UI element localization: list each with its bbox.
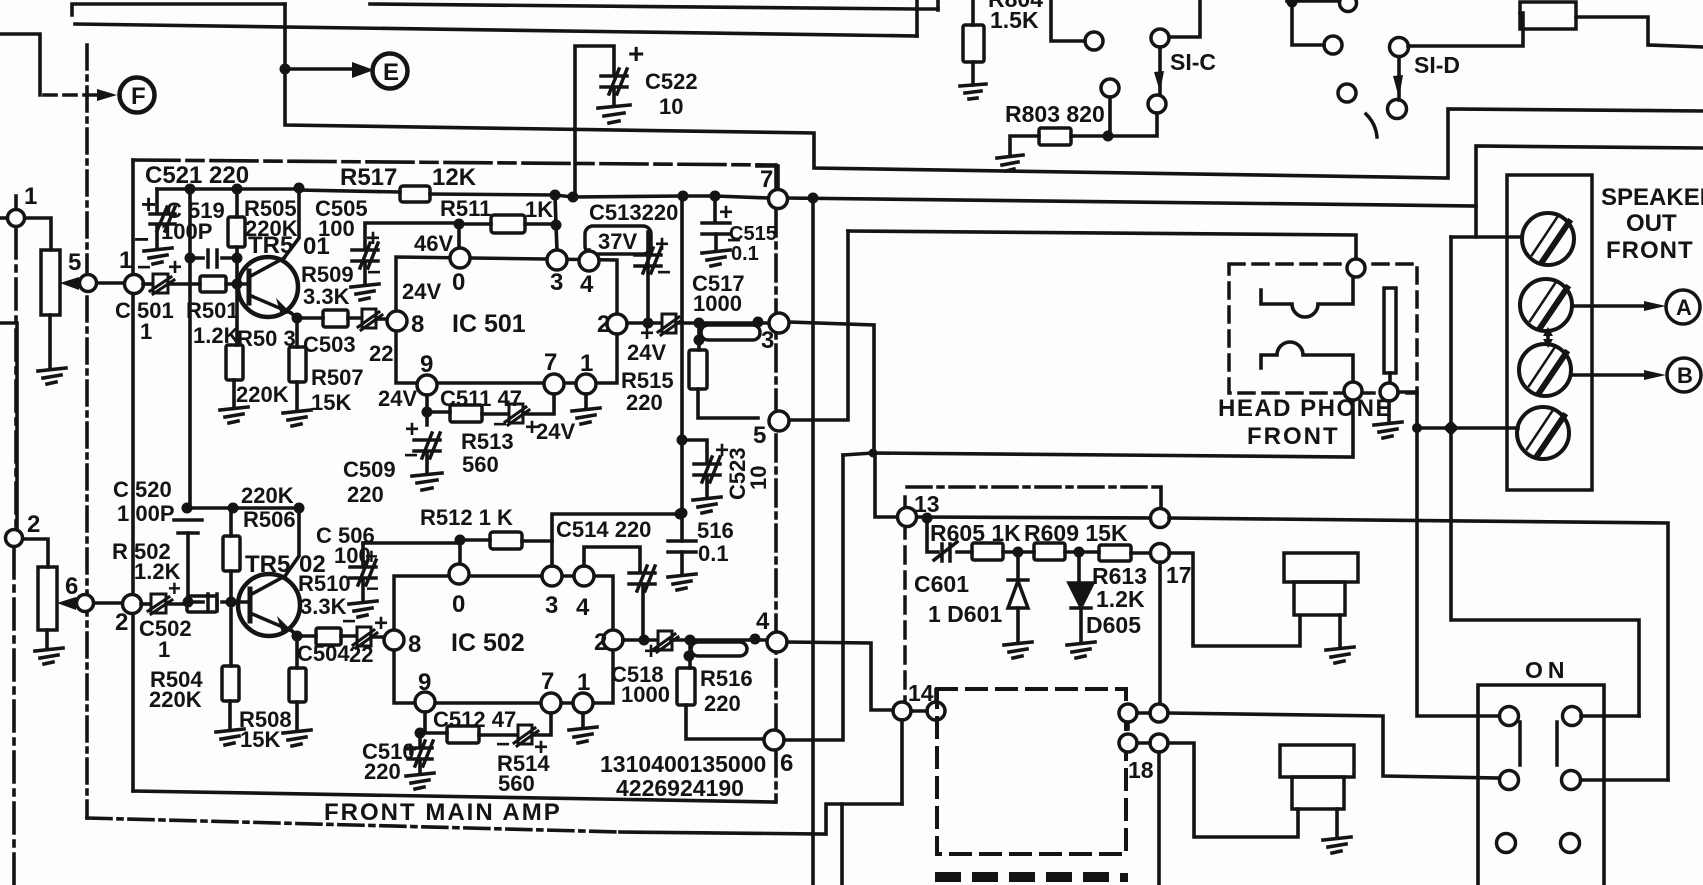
wire R507 ground [295, 382, 299, 410]
outer dash-dot bottom border [87, 818, 620, 832]
ground R803 [997, 155, 1023, 171]
diode D605 lead [1077, 552, 1081, 583]
svg-text:−: − [657, 259, 671, 286]
resistor R509 [323, 310, 348, 327]
heavy dashed boundary bottom [935, 872, 961, 882]
svg-text:1 00P: 1 00P [117, 501, 175, 526]
wire node7 bus to right edge [786, 198, 1476, 206]
plug P1 body [1284, 553, 1358, 582]
resistor R605 [972, 543, 1003, 560]
pin 7 IC502 [541, 693, 561, 713]
wire top border segment with tick [72, 4, 285, 15]
transistor TR502 [238, 574, 300, 636]
capacitor coupling ch1 [208, 250, 217, 267]
wire C505 ground [363, 263, 367, 284]
ground C515 [702, 250, 730, 266]
node B [1667, 358, 1701, 392]
wire node14 riser [900, 720, 904, 804]
ground C516 [668, 574, 696, 590]
junction dot R505 [232, 253, 243, 264]
node 18 right upper [1150, 704, 1168, 722]
wire SI-C feed left [1051, 0, 1085, 41]
switch SI-D contact c [1338, 84, 1356, 102]
wire D601 to ground [1016, 608, 1020, 642]
junction dot 682/440 [677, 435, 688, 446]
junction dots rail [550, 190, 561, 201]
wire C504 to pin8 [371, 635, 385, 639]
wire node6 to board pin2 [94, 601, 122, 605]
svg-text:−: − [137, 254, 151, 281]
wire node3 drop [790, 322, 874, 452]
wire 18 upper to ON lower-left [1168, 713, 1500, 778]
wire input1 feed [0, 216, 7, 220]
wire C509 ground [425, 453, 429, 473]
capacitor C505 electrolytic [352, 243, 378, 268]
wire C501 to R501 [168, 282, 200, 286]
pin 1 IC502 [573, 693, 593, 713]
svg-text:560: 560 [498, 771, 535, 796]
svg-text:C504: C504 [297, 641, 350, 666]
wire R504 ground [228, 701, 232, 729]
svg-text:C521 220: C521 220 [145, 162, 249, 189]
wire R505 leads [235, 189, 239, 285]
capacitor C601 [934, 542, 957, 561]
pin 8 IC501 [387, 311, 407, 331]
junction sleeve [869, 449, 878, 458]
wire C508 down to output [641, 586, 645, 640]
svg-text:IC 501: IC 501 [452, 310, 526, 338]
svg-text:B: B [1677, 363, 1693, 388]
svg-text:R804: R804 [988, 0, 1043, 12]
svg-text:1: 1 [24, 183, 37, 210]
svg-text:+: + [628, 38, 644, 69]
svg-text:18: 18 [1128, 757, 1154, 783]
resistor R804 lead [971, 0, 975, 25]
svg-text:22: 22 [369, 341, 393, 366]
svg-text:220: 220 [364, 759, 401, 784]
svg-text:1.2K: 1.2K [1096, 586, 1145, 612]
ON contact lower right [1562, 771, 1581, 790]
pin 3 IC502 [542, 566, 562, 586]
svg-text:HEAD PHONE: HEAD PHONE [1218, 395, 1393, 422]
terminal 3 [1519, 344, 1571, 396]
capacitor C519 [150, 207, 175, 231]
resistor R505 [228, 217, 245, 247]
ON contact upper right [1563, 707, 1582, 726]
svg-text:9: 9 [418, 669, 431, 696]
node 5 [769, 411, 789, 431]
svg-text:SPEAKER: SPEAKER [1601, 184, 1703, 211]
wire headphone tip feed [848, 231, 1356, 259]
junction dot R515 [694, 335, 705, 346]
wire pin0 riser ch1 [457, 224, 461, 248]
wire input2 left feed [0, 323, 17, 529]
switch SI-D contact b [1388, 100, 1407, 119]
node A [1666, 290, 1700, 324]
resistor R504 [222, 666, 239, 701]
pot1 wiper arrow [60, 277, 79, 290]
resistor R803 [1039, 128, 1071, 145]
svg-text:4: 4 [580, 271, 594, 298]
svg-text:10: 10 [746, 466, 771, 490]
junction dot R803 [1103, 131, 1114, 142]
module box right edge [1159, 487, 1163, 508]
node 18 right lower [1150, 734, 1168, 752]
IC501 box [396, 257, 617, 383]
svg-text:+: + [168, 576, 181, 601]
wire contact c to R803 node [1108, 97, 1112, 136]
ground C505 [351, 284, 379, 300]
ON contact lower left [1500, 771, 1519, 790]
pin 8 IC502 [384, 630, 404, 650]
svg-text:24V: 24V [536, 419, 575, 444]
potentiometer VR2 [38, 567, 57, 630]
ground C522 [598, 105, 630, 123]
headphone dashed box [1229, 264, 1417, 393]
svg-text:−: − [404, 442, 418, 469]
plug P2 lower [1292, 777, 1344, 809]
ground plug P2 [1323, 837, 1351, 853]
pin 0 IC502 [449, 564, 469, 584]
wire blade to node [1388, 373, 1392, 383]
resistor R516 [677, 668, 695, 705]
switch SI-D contact a [1324, 36, 1342, 54]
svg-text:220: 220 [626, 390, 663, 415]
svg-text:6: 6 [780, 750, 793, 777]
svg-text:220: 220 [704, 691, 741, 716]
svg-text:1: 1 [158, 637, 170, 662]
capacitor C515 [702, 223, 730, 234]
ground D601 [1004, 642, 1032, 658]
junction dot D601 [1013, 547, 1024, 558]
switch SI-C contact a [1085, 32, 1103, 50]
resistor R502 body [187, 596, 217, 612]
wire contact b down-left [1110, 113, 1157, 136]
svg-text:FRONT: FRONT [1247, 423, 1340, 450]
capacitor C515 lead [713, 196, 717, 222]
junction dot base wire ch2 [183, 597, 194, 608]
wire C522 ground [612, 89, 616, 105]
diode D601 lead [1016, 552, 1020, 581]
svg-text:−: − [366, 576, 379, 601]
capacitor C520 [174, 520, 202, 533]
svg-text:IC 502: IC 502 [451, 629, 525, 657]
wire to pot2 [23, 539, 48, 567]
svg-text:560: 560 [462, 452, 499, 477]
svg-text:2: 2 [115, 609, 128, 636]
pin 7 IC501 [544, 374, 564, 394]
wire D605 to ground [1079, 608, 1083, 642]
speaker terminal strip box [1507, 175, 1592, 490]
svg-text:3: 3 [550, 269, 563, 296]
svg-text:0: 0 [452, 269, 465, 296]
svg-text:1: 1 [119, 247, 132, 274]
junction dot R511 right [551, 220, 562, 231]
svg-text:R517: R517 [340, 164, 397, 191]
capacitor C601 feed [927, 518, 938, 552]
plug P2 body [1280, 745, 1354, 777]
switch SI-D common [1390, 38, 1409, 57]
node 5 [80, 275, 97, 292]
junction dot emitter ch1 [292, 313, 303, 324]
svg-text:46V: 46V [414, 231, 453, 256]
junction dots C520 rail [182, 503, 193, 514]
node board pin 1 [125, 275, 144, 294]
svg-text:6: 6 [65, 573, 78, 600]
svg-text:24V: 24V [378, 386, 417, 411]
wire node4 to node14 drop [787, 642, 893, 710]
svg-text:ON: ON [1525, 657, 1570, 683]
ON blade right [1555, 722, 1559, 765]
wire pin2 output [627, 321, 769, 325]
input shield dash line lower [12, 548, 16, 885]
ON contact upper left [1500, 707, 1519, 726]
ground pin1 IC501 [572, 408, 600, 424]
wire branch up to right edge [1476, 146, 1703, 237]
svg-text:10: 10 [659, 94, 683, 119]
svg-text:1000: 1000 [621, 682, 670, 707]
svg-text:+: + [141, 189, 156, 219]
node circle top [1340, 0, 1357, 12]
ground pin1 IC502 [569, 727, 597, 743]
node E [373, 54, 408, 89]
terminal 1 [1522, 213, 1574, 265]
resistor R501 [200, 276, 226, 292]
wire node13 riser [875, 453, 897, 517]
svg-text:37V: 37V [598, 229, 637, 254]
capacitor C516 [668, 541, 696, 552]
capacitor C522 loop [575, 46, 614, 196]
wire sleeve return line [843, 399, 1353, 457]
svg-text:SI-D: SI-D [1414, 52, 1460, 78]
wire C519 to ground [155, 226, 159, 248]
svg-text:22: 22 [349, 642, 373, 667]
wire switch node to ground [1387, 401, 1391, 422]
ON spare contact right [1561, 834, 1580, 853]
connector box top right [1520, 2, 1576, 29]
wire top flat line C [370, 4, 938, 9]
ground C519 [144, 248, 172, 264]
node 13 [898, 508, 917, 527]
wire speaker terminal1 feed [1451, 235, 1522, 239]
svg-text:R512 1 K: R512 1 K [420, 505, 513, 530]
wire C520 lead down [186, 533, 190, 602]
svg-text:+: + [168, 254, 182, 281]
capacitor C523 loop [682, 440, 707, 462]
capacitor C507 bipolar [658, 314, 682, 335]
switch SI-C lever [1158, 47, 1162, 93]
wire C520 rail [187, 506, 299, 510]
capacitor C502 bipolar [148, 594, 172, 614]
svg-text:C513220: C513220 [589, 200, 678, 225]
resistor R514 [447, 726, 479, 743]
node input 2 [6, 530, 23, 547]
wire node17 right jog to plug [1169, 553, 1300, 646]
pin 9 IC501 [417, 375, 437, 395]
wire node6 right [784, 455, 843, 740]
svg-text:12K: 12K [432, 164, 477, 191]
resistor R503 lead [235, 291, 239, 345]
terminal 4 [1517, 407, 1569, 459]
svg-text:220K: 220K [149, 687, 202, 712]
pin 3 IC501 [547, 250, 567, 270]
svg-text:8: 8 [411, 311, 424, 338]
terminal 2 [1520, 279, 1572, 331]
wire R516 to node6 [686, 705, 764, 739]
wire node5 link [790, 231, 848, 420]
node 7 [769, 190, 788, 209]
svg-text:R510: R510 [298, 571, 351, 596]
svg-text:516: 516 [697, 518, 734, 543]
capacitor C519 lead [155, 189, 159, 212]
node 6 input [77, 595, 94, 612]
junction dot node7 bus [808, 193, 819, 204]
resistor R510 [316, 628, 341, 645]
ON blade left [1518, 722, 1522, 765]
junction dot pin9 [422, 407, 433, 418]
board outline bottom edge [133, 791, 775, 802]
capacitor C508 ch2 [629, 566, 655, 591]
junction dot R506 [226, 597, 237, 608]
pin 4 IC501 [579, 251, 599, 271]
node 14 right [927, 702, 945, 720]
svg-text:OUT: OUT [1626, 210, 1677, 237]
node headphone tip [1347, 259, 1365, 277]
wire C515 ground [714, 234, 718, 250]
junction 1417/428 [1412, 423, 1422, 433]
svg-text:15K: 15K [311, 390, 351, 415]
wire R513 to C511 [482, 412, 508, 416]
wire input1 stub [14, 196, 18, 209]
wire TR501 collector up [284, 189, 299, 258]
ground headphone [1374, 422, 1402, 438]
svg-text:2: 2 [27, 511, 40, 538]
ground pot2 [35, 648, 63, 664]
svg-text:D605: D605 [1086, 612, 1141, 638]
svg-text:8: 8 [408, 631, 421, 658]
capacitor C511 bipolar [505, 404, 529, 425]
wire C510 ground [418, 761, 422, 773]
wire node17 down to 18 [1158, 562, 1162, 704]
svg-text:TR5: TR5 [248, 232, 293, 259]
svg-text:24V: 24V [627, 340, 666, 365]
wire C518 stubs [690, 639, 755, 668]
wire R515 to node5 [698, 389, 758, 418]
capacitor C5xx bipolar ch2 [654, 631, 678, 652]
wire node5 to board pin1 [97, 281, 125, 285]
wire supply vertical 682 [680, 196, 684, 541]
IC502 box [394, 576, 613, 703]
ground R507 [283, 410, 311, 426]
ground R804 [960, 84, 986, 99]
svg-text:R605 1K: R605 1K [930, 520, 1021, 546]
node headphone switch [1380, 383, 1398, 401]
wire R508 ground [295, 702, 299, 730]
svg-text:+: + [366, 225, 380, 252]
wire R511 leads [459, 222, 556, 226]
link dash 18 [1126, 723, 1130, 733]
capacitor C503 bipolar [358, 309, 382, 330]
wire pin3 riser ch2 [550, 541, 554, 566]
input shield dash line [14, 228, 18, 529]
svg-text:14: 14 [908, 680, 934, 706]
junction dot SI-D [1287, 0, 1298, 8]
capacitor C504 bipolar [353, 627, 377, 648]
resistor R515 [689, 350, 707, 389]
node 17 lower [1151, 544, 1170, 563]
svg-text:2: 2 [597, 311, 610, 338]
svg-text:2: 2 [594, 629, 607, 656]
wire base node TR501 [190, 256, 203, 260]
wire pin9 chain ch2 [420, 712, 447, 745]
junction dot node13 [922, 513, 933, 524]
wire coupling to R505 node [222, 256, 237, 260]
wire pin9 chain [427, 395, 450, 425]
wire R804 to ground [971, 62, 975, 85]
svg-text:220K: 220K [241, 483, 294, 508]
switch SI-C contact b [1148, 95, 1166, 113]
junction dot base [232, 279, 243, 290]
svg-text:C514 220: C514 220 [556, 517, 651, 542]
svg-text:220K: 220K [236, 382, 289, 407]
svg-text:13: 13 [914, 491, 940, 517]
ground pot1 [38, 368, 66, 384]
svg-text:0: 0 [452, 591, 465, 618]
wire R506 leads [229, 508, 233, 602]
wire node14 to dashed box corner [934, 690, 938, 702]
wire R511 node vertical [555, 195, 557, 250]
svg-text:+: + [719, 199, 733, 226]
resistor R506 [223, 536, 240, 571]
resistor R507 [289, 347, 306, 382]
wire to node B [1572, 373, 1648, 377]
wire R509 to C503 [348, 316, 361, 320]
svg-text:FRONT MAIN AMP: FRONT MAIN AMP [324, 799, 562, 826]
wire line C corner up [936, 0, 940, 10]
wire C502 to R502 [166, 602, 187, 606]
wire C512 to pin7 [532, 713, 551, 735]
junction dot R511 left [454, 219, 465, 230]
board outline right edge dash-dot [774, 165, 778, 802]
svg-text:+: + [405, 416, 419, 443]
diode D601 [1008, 580, 1028, 608]
wire TR501 emitter to node [291, 313, 297, 318]
outer dash-dot divider left [85, 45, 89, 818]
capacitor coupling ch2 [208, 594, 217, 611]
pot2 wiper arrow [57, 597, 76, 610]
svg-text:+: + [655, 231, 669, 258]
svg-text:R803 820: R803 820 [1005, 101, 1105, 127]
capacitor C501 bipolar [150, 274, 174, 294]
wire pin1 ground [584, 394, 588, 408]
module box left dash-dot [903, 497, 907, 700]
svg-text:17: 17 [1166, 562, 1192, 588]
node 14 [893, 702, 911, 720]
resistor R503 [226, 345, 243, 380]
svg-text:9: 9 [420, 351, 433, 378]
wire pot2 to ground [45, 630, 49, 648]
wire pot1 to ground [48, 315, 52, 368]
svg-text:C511 47: C511 47 [440, 386, 522, 411]
pin 0 IC501 [450, 248, 470, 268]
wire R501 to base [226, 282, 248, 286]
capacitor C505 feed [365, 223, 459, 248]
svg-text:7: 7 [760, 166, 773, 193]
resistor R508 [289, 668, 306, 702]
svg-text:24V: 24V [402, 279, 441, 304]
svg-text:R609 15K: R609 15K [1024, 520, 1128, 546]
capacitor C510 [408, 741, 433, 766]
